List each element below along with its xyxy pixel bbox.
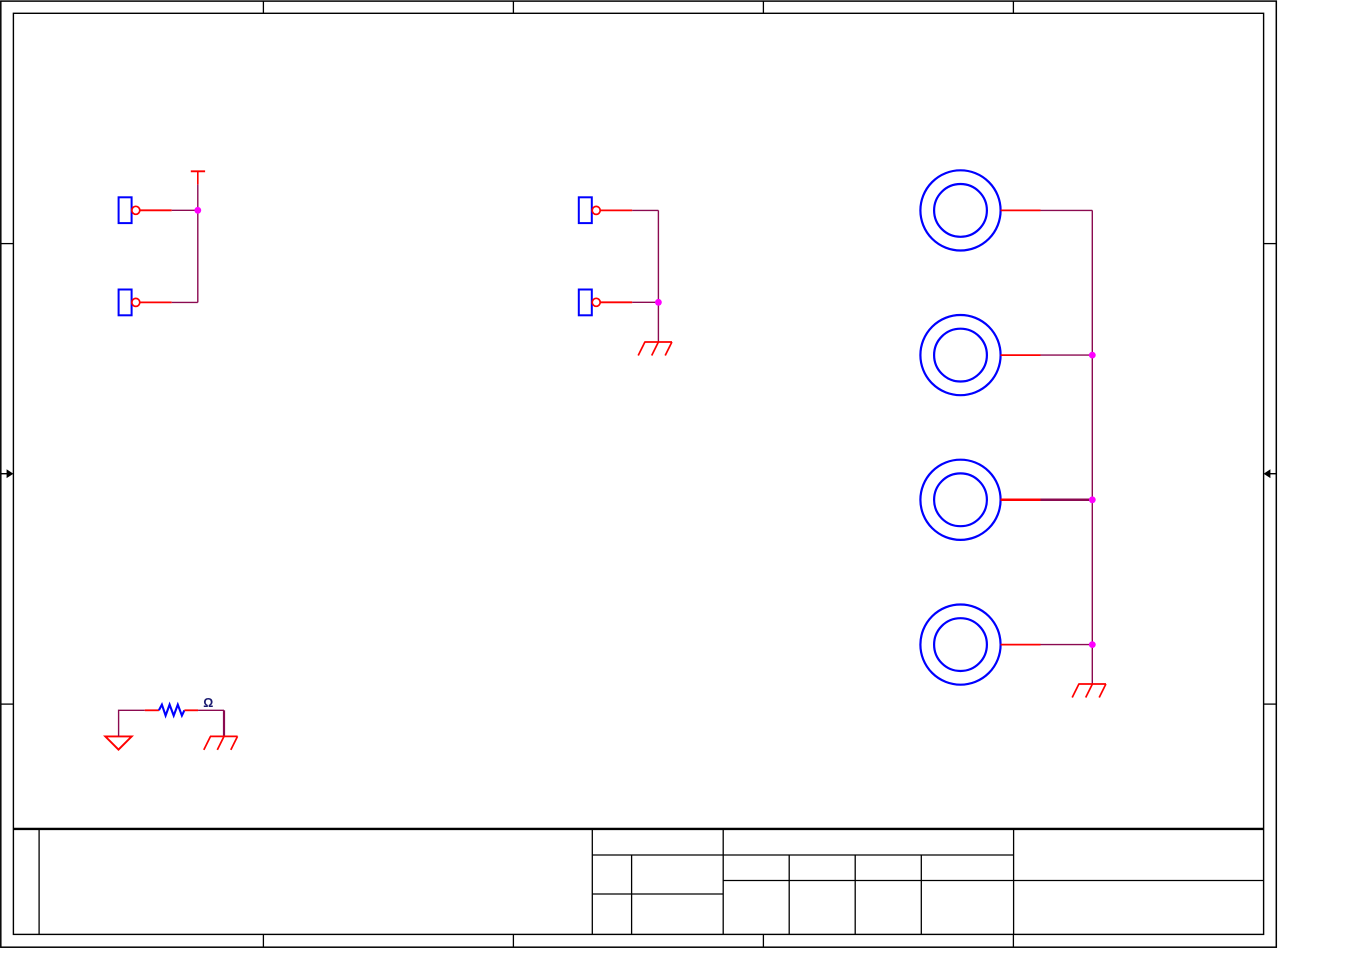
wire vertical bus net xyxy=(1091,210,1093,684)
jack P2 outer ring xyxy=(920,315,1000,395)
border zone tick bottom 4 xyxy=(1012,934,1014,947)
wire net vertical to chassis xyxy=(223,710,225,736)
resistor R1 zigzag xyxy=(159,705,185,716)
connector J2 pin bubble xyxy=(132,298,140,306)
ground triangle GND xyxy=(105,736,131,749)
border zone tick top 2 xyxy=(512,1,514,13)
title block heavy top rule xyxy=(13,828,1263,830)
title block horizontal row C xyxy=(592,893,723,895)
title block horizontal row B xyxy=(723,880,1263,882)
node junction J4 net xyxy=(655,299,662,306)
border zone tick top 4 xyxy=(1012,1,1014,13)
node junction bus-P2 xyxy=(1089,352,1096,359)
connector J2 body xyxy=(119,290,132,316)
wire net to J1 xyxy=(172,209,198,211)
wire net P1 xyxy=(1041,209,1093,211)
jack P1 outer ring xyxy=(920,170,1000,250)
border zone tick top 3 xyxy=(762,1,764,13)
jack P4 inner ring xyxy=(934,618,987,671)
jack P3 inner ring xyxy=(934,473,987,526)
chassis ground middle xyxy=(638,342,672,356)
chassis ground bottom-left xyxy=(204,736,238,750)
connector J3 body xyxy=(579,197,592,223)
border zone tick right 1 xyxy=(1264,243,1277,245)
border zone tick left 2 xyxy=(1,703,14,705)
border zone tick top 1 xyxy=(262,1,264,13)
jack P4 pin xyxy=(1001,644,1041,646)
svg-text:Ω: Ω xyxy=(203,696,213,710)
wire vertical net J1-J2 xyxy=(197,184,199,302)
connector J1 pin 1 xyxy=(140,209,172,211)
border zone tick bottom 1 xyxy=(262,934,264,947)
title block lines xyxy=(39,829,1264,935)
connector J4 body xyxy=(579,290,592,316)
title block vertical at x=632 xyxy=(631,855,633,934)
jack P2 inner ring xyxy=(934,329,987,382)
chassis ground right xyxy=(1072,684,1106,698)
title block vertical at x=921 xyxy=(920,855,922,934)
wire net P3 thick xyxy=(1041,499,1093,502)
title block vertical at x=592 xyxy=(591,829,593,935)
connector J3 pin 1 xyxy=(600,209,632,211)
border zone tick right 2 xyxy=(1264,703,1277,705)
title block vertical at x=723 xyxy=(722,829,724,935)
jack P4 outer ring xyxy=(920,605,1000,685)
node junction J1 net xyxy=(194,207,201,214)
border zone tick left 1 xyxy=(1,243,14,245)
border zone tick bottom 3 xyxy=(762,934,764,947)
power symbol Vcc bar xyxy=(191,171,205,184)
node junction bus-P4 xyxy=(1089,641,1096,648)
wire net to J3 xyxy=(632,209,658,211)
jack P2 pin xyxy=(1001,354,1041,356)
title block vertical: narrow left column xyxy=(38,829,40,935)
border zone tick bottom 2 xyxy=(512,934,514,947)
jack P1 inner ring xyxy=(934,184,987,237)
connector J4 pin bubble xyxy=(592,298,600,306)
jack P3 pin thick xyxy=(1001,499,1041,502)
connector J1 pin bubble xyxy=(132,206,140,214)
resistor R1 pin left xyxy=(145,709,159,711)
wire net triangle-to-resistor xyxy=(119,710,145,736)
border centering arrow right xyxy=(1264,469,1277,478)
title block horizontal row A xyxy=(592,854,1013,856)
jack P1 pin xyxy=(1001,209,1041,211)
connector J1 body xyxy=(119,197,132,223)
connector J4 pin 1 xyxy=(600,301,632,303)
wire net resistor-to-ground xyxy=(198,709,224,711)
border centering arrow left xyxy=(1,469,14,478)
title block vertical at x=855 xyxy=(854,855,856,934)
connector J2 pin 1 xyxy=(140,301,172,303)
wire net P2 xyxy=(1041,354,1093,356)
resistor R1 pin right xyxy=(184,709,198,711)
connector J3 pin bubble xyxy=(592,206,600,214)
wire net to J2 xyxy=(172,301,198,303)
wire vertical net J3-J4-ground xyxy=(657,210,659,342)
jack P3 outer ring xyxy=(920,460,1000,540)
title block vertical at x=789 xyxy=(788,855,790,934)
wire net P4 xyxy=(1041,644,1093,646)
wire net to J4 xyxy=(632,301,658,303)
title block vertical at x=1014 xyxy=(1013,829,1015,935)
node junction bus-P3 xyxy=(1089,496,1096,503)
